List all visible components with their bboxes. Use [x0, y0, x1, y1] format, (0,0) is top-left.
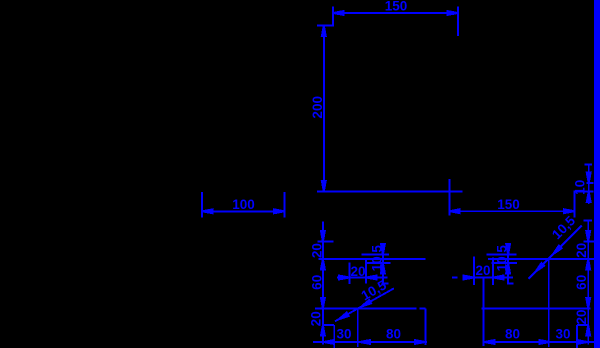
dimension 10 right edge: top serif: [585, 164, 593, 166]
right dim 20 horizontal: arrow to left: [493, 276, 504, 280]
right chain arrow down to tick1: [586, 231, 590, 242]
left 10,5 vertical dim: arrow up: [381, 263, 385, 274]
left reference line y=308.4 dash: [420, 307, 426, 309]
right dim 20 horizontal: extension left: [473, 257, 475, 286]
dimension 10 right edge: dimension line: [588, 164, 590, 204]
svg-text:20: 20: [309, 311, 324, 326]
left chain tick 20-top: [317, 241, 333, 243]
left 10,5 vertical dim: arrow down: [381, 244, 385, 255]
right 10,5 vertical dim: extension A: [487, 254, 517, 256]
dimension 150 lower right: arrow right: [564, 209, 575, 213]
right long reference line y=258.9: [488, 258, 594, 260]
right bottom arrow at chain: [577, 340, 588, 344]
right extension line x=577: [576, 325, 578, 348]
dimension 100: arrow left: [202, 209, 213, 213]
dimension 150 top: arrow right: [448, 11, 459, 15]
svg-text:150: 150: [497, 197, 520, 212]
dimension 200 left: arrow up: [322, 26, 326, 37]
right dim 20 horizontal: dimension line: [463, 277, 513, 279]
dimension 150 lower right: extension line right: [574, 191, 576, 218]
left dim 20 horizontal: extension right: [365, 259, 367, 284]
svg-text:10,5: 10,5: [494, 245, 509, 272]
left bottom arrow at 30/80: [360, 340, 371, 344]
left 10,5 vertical dim: foot serif: [382, 282, 389, 284]
left long reference line y=258.9: [319, 258, 426, 260]
left dim 20 horizontal: dimension line: [337, 277, 387, 279]
dimension 200 left: arrow down: [322, 181, 326, 192]
left chain dimension line vertical: [322, 221, 324, 344]
left extension line x=334.2: [333, 325, 335, 348]
left dim 20 horizontal: arrow to right: [339, 276, 350, 280]
right chain arrow down to tick3: [586, 298, 590, 309]
right dim 20 horizontal: arrow to right: [464, 276, 475, 280]
right 10,5 vertical dim: dimension line: [507, 244, 509, 284]
left extension line 30/80 boundary: [357, 308, 359, 347]
dimension 100: dimension line: [202, 210, 285, 212]
svg-text:20: 20: [350, 264, 365, 279]
dimension 100: extension line left: [201, 192, 203, 218]
blue border bar right edge: [594, 0, 600, 348]
dimension 200 left: dimension line: [323, 26, 325, 192]
reference line y=191.6: [317, 191, 462, 193]
right extension line 30/80 boundary: [548, 259, 550, 347]
right chain arrow up from tick2: [586, 259, 590, 270]
right chain dimension line vertical: [587, 221, 589, 345]
right bottom dimension line: [484, 341, 595, 343]
left 10,5 vertical dim: extension B: [367, 262, 391, 264]
right chain tick 20-top: [584, 241, 594, 243]
right diagonal arrowhead 1: [534, 263, 544, 273]
right reference line y=308.4: [482, 307, 591, 309]
left bottom arrow right: [415, 340, 426, 344]
dimension 150 top: extension line right: [457, 7, 459, 37]
svg-text:20: 20: [574, 309, 589, 324]
dimension 100: arrow right: [274, 209, 285, 213]
dimension 10 right edge: extension line upper: [587, 182, 594, 184]
right 10,5 vertical dim: arrow down: [506, 244, 510, 255]
left chain arrow down to tick1: [321, 231, 325, 242]
left diagonal leader 10,5: [335, 288, 394, 321]
left dim 20 horizontal: arrow to left: [366, 276, 377, 280]
dimension 150 top: dimension line: [333, 12, 458, 14]
svg-text:80: 80: [386, 327, 401, 342]
svg-text:60: 60: [309, 275, 324, 290]
dimension 10 right edge: arrow up: [587, 192, 591, 203]
svg-text:20: 20: [574, 243, 589, 258]
left chain arrow down to tick3: [321, 298, 325, 309]
svg-text:150: 150: [385, 0, 408, 13]
right diagonal arrowhead 2: [552, 245, 562, 255]
right dim 20 horizontal: dash left: [452, 277, 457, 279]
left corner square top tick: [323, 324, 334, 326]
left extension line 80 right: [424, 308, 426, 344]
dimension 10 right edge: extension line lower: [573, 191, 593, 193]
left bottom dimension line: [313, 341, 427, 343]
right chain top serif: [583, 220, 592, 222]
svg-text:30: 30: [336, 327, 351, 342]
svg-text:200: 200: [310, 96, 325, 119]
left bottom arrow at chain: [323, 340, 334, 344]
dimension 150 lower right: arrow left: [449, 209, 460, 213]
left reference line y=308.4: [315, 307, 417, 309]
left chain arrow up from tick2: [321, 259, 325, 270]
left chain arrow up to tick4: [321, 325, 325, 336]
svg-text:100: 100: [232, 197, 255, 212]
right diagonal leader 10,5: [529, 225, 582, 278]
svg-text:10: 10: [572, 180, 587, 195]
right bottom arrow at 30/80: [540, 340, 551, 344]
svg-text:60: 60: [574, 275, 589, 290]
svg-text:10,5: 10,5: [370, 245, 385, 272]
dimension 150 lower right: extension line left: [448, 179, 450, 216]
svg-text:30: 30: [555, 327, 570, 342]
right 10,5 vertical dim: extension B: [492, 262, 518, 264]
dimension 150 top: arrow left: [333, 11, 344, 15]
dimension 100: extension line right: [284, 192, 286, 218]
right 10,5 vertical dim: arrow up: [506, 263, 510, 274]
right 10,5 vertical dim: foot serif: [507, 282, 514, 284]
left dim 20 horizontal: extension left: [349, 262, 351, 284]
right corner square top tick: [577, 324, 588, 326]
dimension 150 lower right: dimension line: [449, 210, 574, 212]
dimension 150 top: extension line left: [332, 7, 334, 26]
left diagonal arrowhead 2: [360, 300, 371, 309]
svg-text:20: 20: [309, 243, 324, 258]
dimension 200 left: extension line top: [317, 25, 334, 27]
left 10,5 vertical dim: dimension line: [382, 244, 384, 284]
right dim 20 horizontal: extension right: [492, 257, 494, 285]
left diagonal arrowhead 1: [338, 313, 349, 322]
left 10,5 vertical dim: extension A: [361, 254, 389, 256]
right extension line 80 left: [483, 278, 485, 347]
right bottom arrow at left: [484, 340, 495, 344]
svg-text:80: 80: [505, 327, 520, 342]
dimension 10 right edge: arrow down: [587, 173, 591, 184]
right chain arrow up to tick4: [586, 325, 590, 336]
svg-text:20: 20: [475, 263, 490, 278]
